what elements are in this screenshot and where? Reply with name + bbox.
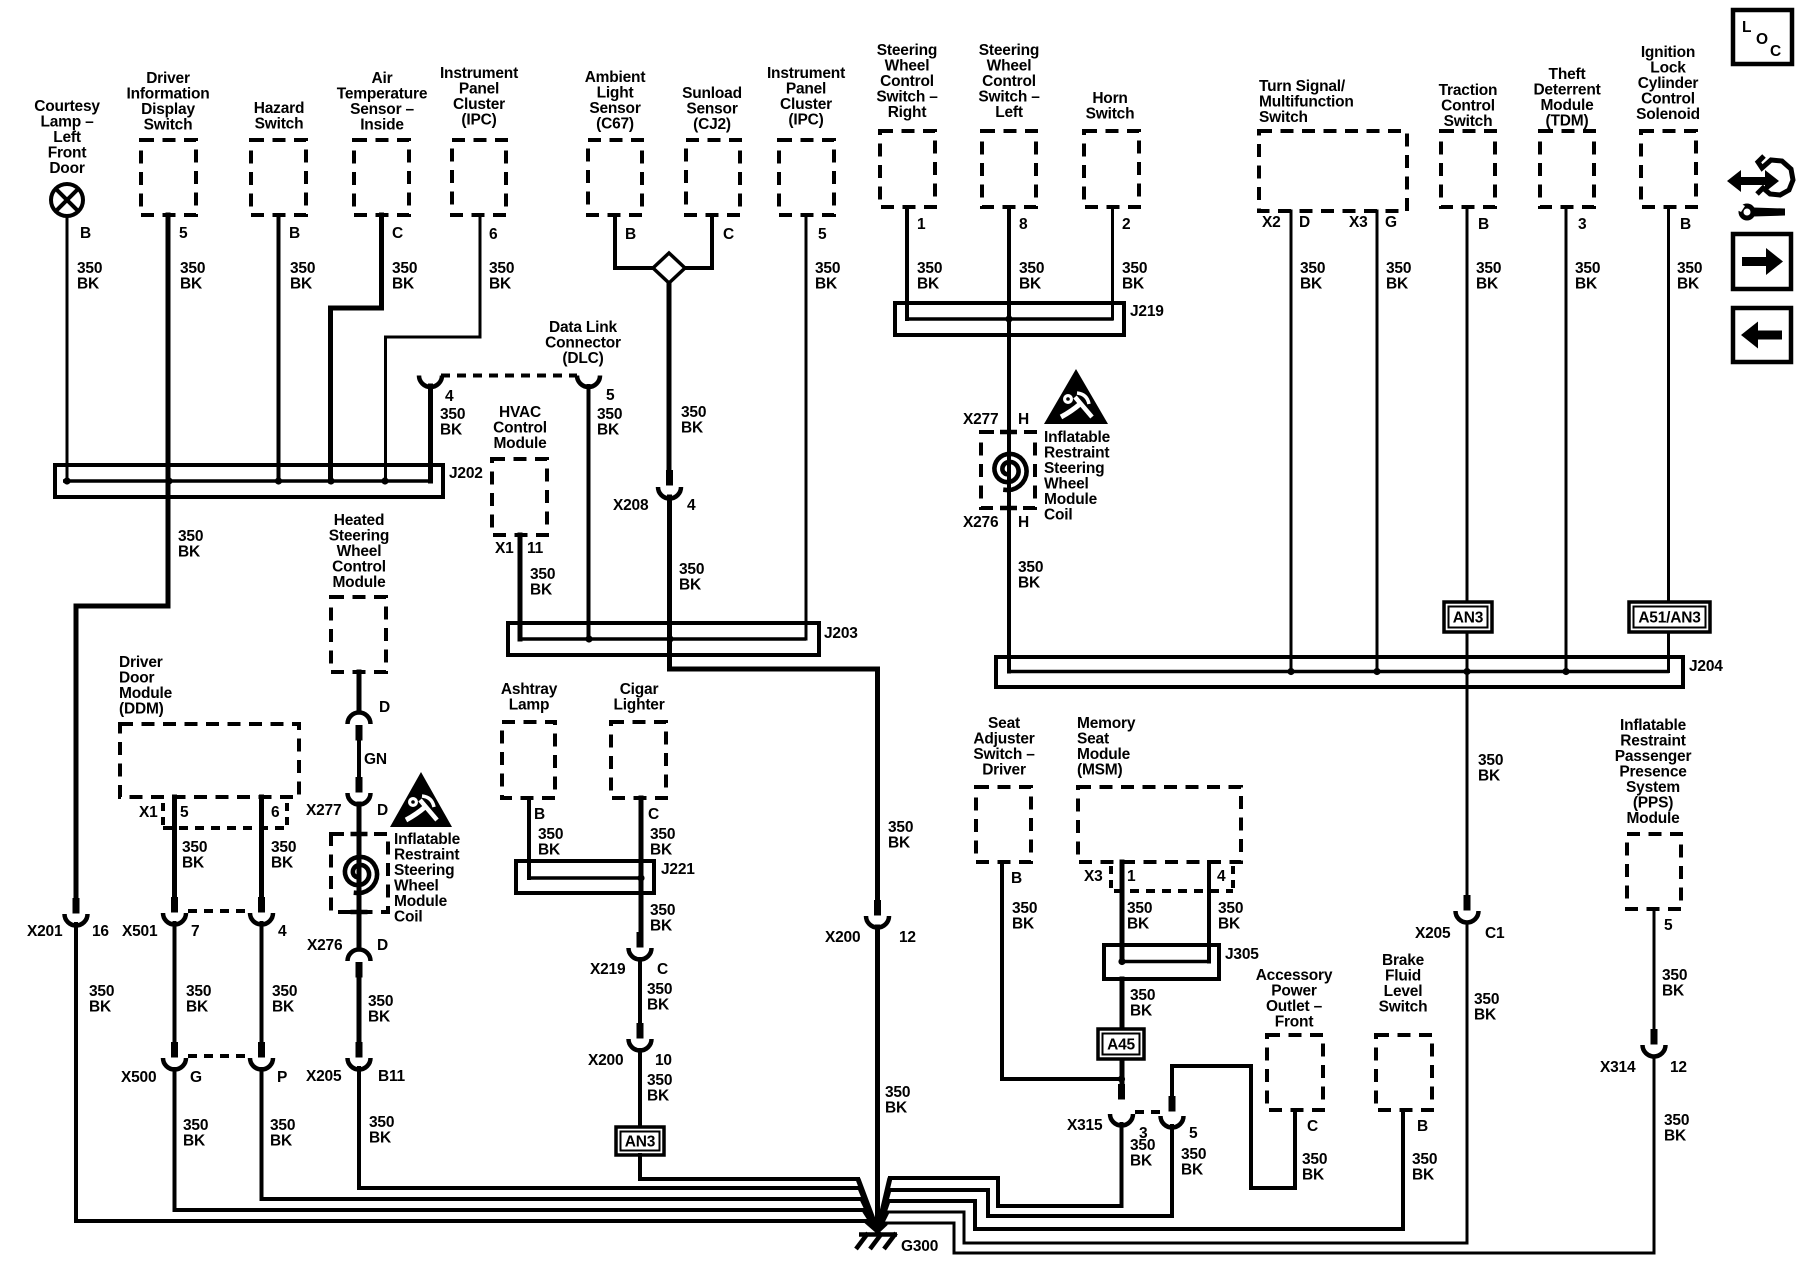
svg-text:4: 4 <box>445 388 454 405</box>
connector stub X315 5 <box>1169 1096 1176 1112</box>
connector cup X277 D <box>348 793 371 805</box>
wire traction control switch B through AN3 and J204 to X205 <box>1466 207 1469 896</box>
connector stub X500 G <box>171 1042 178 1058</box>
svg-text:X277: X277 <box>963 411 998 428</box>
svg-text:B: B <box>1680 216 1691 233</box>
svg-text:350BK: 350BK <box>1662 967 1687 1000</box>
svg-text:350BK: 350BK <box>885 1084 910 1117</box>
ground bus J221 <box>516 861 654 893</box>
steering wheel control switch right box <box>880 131 935 207</box>
svg-text:GN: GN <box>364 751 387 768</box>
instrument panel cluster (IPC) box left <box>452 140 506 215</box>
svg-text:6: 6 <box>489 226 498 243</box>
svg-text:X208: X208 <box>613 497 649 514</box>
wire ashtray lamp B to J221 <box>527 798 531 878</box>
connector cup X500 G <box>163 1058 186 1070</box>
wire ignition lock cylinder control solenoid B through A51/AN3 to J204 <box>1667 207 1670 672</box>
wire turn signal switch X2-D to J204 <box>1290 211 1293 672</box>
svg-text:X315: X315 <box>1067 1117 1103 1134</box>
connector dome X276 D <box>348 950 371 962</box>
wire X315 5 to ground G300 <box>889 1126 1172 1216</box>
wire heated steering wheel module to connector D <box>357 672 362 712</box>
courtesy lamp symbol - left front door <box>51 184 83 216</box>
svg-text:X200: X200 <box>588 1052 623 1069</box>
svg-text:X3: X3 <box>1084 868 1103 885</box>
wire X315 3 to ground G300 <box>890 1124 1122 1206</box>
dash tick X1 right <box>285 803 289 826</box>
svg-text:350BK: 350BK <box>530 566 555 599</box>
svg-text:350BK: 350BK <box>1478 752 1503 785</box>
ground bus J219 <box>895 303 1124 335</box>
wire brake fluid level switch B to ground G300 <box>888 1110 1403 1229</box>
wire steering wheel control switch right 1 to J219 <box>905 207 909 319</box>
connector stub X277 D <box>356 777 363 793</box>
connector stub X200 12 <box>874 900 881 916</box>
wire X219 C to X200 10 <box>638 959 642 1024</box>
svg-text:IgnitionLockCylinderControlSol: IgnitionLockCylinderControlSolenoid <box>1636 44 1700 123</box>
connector stub X201 <box>73 898 80 914</box>
svg-text:HeatedSteeringWheelControlModu: HeatedSteeringWheelControlModule <box>329 512 389 591</box>
connector stub X205 B11 <box>356 1042 363 1058</box>
svg-text:350BK: 350BK <box>1130 1137 1155 1170</box>
clockspring coil symbol left <box>345 857 377 893</box>
ground bus J202 <box>55 465 443 497</box>
svg-text:C: C <box>648 806 659 823</box>
connector cup X200 12 <box>866 916 889 928</box>
connector cup X315 3 <box>1110 1114 1133 1126</box>
svg-text:350BK: 350BK <box>1664 1112 1689 1145</box>
svg-text:HVACControlModule: HVACControlModule <box>493 404 547 452</box>
wire X200 10 to AN3 <box>638 1050 642 1127</box>
connector cup DLC pin 5 <box>577 376 600 388</box>
wire DLC 5 to J203 <box>587 386 591 639</box>
SIR warning triangle right <box>1044 369 1108 424</box>
svg-text:J202: J202 <box>449 465 483 482</box>
svg-text:G300: G300 <box>901 1238 938 1255</box>
tick X276 H at coil box bottom <box>1000 506 1017 511</box>
dashed edge X1 DDM <box>163 826 287 830</box>
svg-text:350BK: 350BK <box>917 260 942 293</box>
svg-text:10: 10 <box>655 1052 672 1069</box>
svg-text:1: 1 <box>917 216 926 233</box>
svg-text:L: L <box>1742 19 1751 36</box>
svg-text:350BK: 350BK <box>1575 260 1600 293</box>
wire instrument panel cluster 6 to J202 <box>386 215 481 481</box>
dash tick X3 right <box>1231 866 1235 889</box>
svg-text:X314: X314 <box>1600 1059 1636 1076</box>
connector stub X500 P <box>258 1042 265 1058</box>
accessory power outlet box <box>1267 1035 1323 1110</box>
fuse label box A45 <box>1098 1029 1144 1059</box>
wire X501 7 to X500 G <box>173 923 177 1042</box>
svg-text:350BK: 350BK <box>392 260 417 293</box>
splice diamond for ambient light and sunload sensors <box>653 253 685 283</box>
svg-text:350BK: 350BK <box>650 826 675 859</box>
wire instrument panel cluster 5 to J203 <box>805 215 808 639</box>
theft deterrent module box <box>1540 131 1594 207</box>
seat adjuster switch box <box>976 787 1031 862</box>
wire theft deterrent module 3 to J204 <box>1565 207 1568 672</box>
svg-text:X1: X1 <box>139 804 158 821</box>
connector cup X208 <box>658 487 681 499</box>
svg-text:A45: A45 <box>1107 1037 1135 1054</box>
instrument panel cluster (IPC) box right <box>779 140 834 215</box>
svg-text:350BK: 350BK <box>815 260 840 293</box>
svg-text:11: 11 <box>527 540 544 557</box>
connector stub X314 <box>1651 1029 1658 1045</box>
ignition lock cylinder control solenoid box <box>1641 131 1696 207</box>
svg-text:B: B <box>1478 216 1489 233</box>
svg-text:C: C <box>1770 43 1781 60</box>
svg-text:BrakeFluidLevelSwitch: BrakeFluidLevelSwitch <box>1379 952 1428 1016</box>
inflatable restraint steering wheel module coil box right <box>981 432 1035 508</box>
connector cup X200 10 <box>629 1039 652 1051</box>
legend icon double arrow with component outline and wrench <box>1727 156 1793 221</box>
svg-text:X2: X2 <box>1262 214 1281 231</box>
svg-text:AN3: AN3 <box>625 1134 656 1151</box>
svg-text:350BK: 350BK <box>180 260 205 293</box>
wire horn switch 2 to J219 <box>1111 207 1114 319</box>
svg-text:B: B <box>289 225 300 242</box>
svg-text:X501: X501 <box>122 923 158 940</box>
svg-text:X276: X276 <box>307 937 343 954</box>
connector stub below dome D <box>356 725 363 741</box>
ground symbol G300 <box>856 1233 897 1249</box>
traction control switch box <box>1441 131 1495 207</box>
ground bus J204 <box>996 657 1683 687</box>
svg-text:350BK: 350BK <box>440 406 465 439</box>
sunload sensor box <box>686 140 740 215</box>
svg-text:CigarLighter: CigarLighter <box>613 681 664 714</box>
dash tick X1 left <box>161 803 165 826</box>
junction seat adjuster wire with A45 wire <box>1118 1075 1125 1082</box>
dashed edge X3 MSM <box>1114 889 1233 893</box>
svg-text:350BK: 350BK <box>538 826 563 859</box>
connector stub X208 <box>666 470 673 486</box>
dash tick X3 left <box>1109 866 1113 889</box>
connector cup X201 16 <box>65 914 88 926</box>
svg-text:3: 3 <box>1578 216 1587 233</box>
svg-text:J219: J219 <box>1130 303 1164 320</box>
tick X277 H at coil box top <box>1000 430 1017 435</box>
svg-text:8: 8 <box>1019 216 1028 233</box>
svg-text:350BK: 350BK <box>597 406 622 439</box>
svg-text:1: 1 <box>1127 868 1136 885</box>
svg-text:350BK: 350BK <box>681 404 706 437</box>
heated steering wheel control module box <box>331 597 386 672</box>
svg-text:B: B <box>534 806 545 823</box>
wire X501 4 to X500 P <box>260 923 264 1042</box>
svg-text:350BK: 350BK <box>369 1114 394 1147</box>
wire turn signal switch X3-G to J204 <box>1376 211 1379 672</box>
wire accessory power outlet C to X315 5 <box>1172 1066 1295 1188</box>
connector stub X200 10 <box>637 1023 644 1039</box>
svg-text:O: O <box>1756 31 1768 48</box>
connector cup X314 12 <box>1643 1045 1666 1057</box>
svg-text:350BK: 350BK <box>368 993 393 1026</box>
svg-text:350BK: 350BK <box>1218 900 1243 933</box>
cigar lighter box <box>611 722 666 798</box>
svg-text:350BK: 350BK <box>77 260 102 293</box>
tick at left coil box top <box>351 832 368 837</box>
svg-text:X3: X3 <box>1349 214 1368 231</box>
svg-text:C: C <box>1307 1118 1318 1135</box>
wire DDM X1-6 to X501 <box>259 797 264 897</box>
svg-text:350BK: 350BK <box>186 983 211 1016</box>
wire GN between connectors <box>357 740 361 777</box>
connector stub X501 4 <box>258 897 265 913</box>
dashed link X500 <box>188 1054 248 1058</box>
svg-text:350BK: 350BK <box>1019 260 1044 293</box>
wire cigar lighter C through J221 to X219 <box>639 798 644 933</box>
svg-text:350BK: 350BK <box>1127 900 1152 933</box>
svg-text:12: 12 <box>899 929 916 946</box>
svg-text:5: 5 <box>180 804 189 821</box>
svg-text:C: C <box>723 226 734 243</box>
connector dome D heated steering wheel module <box>348 713 371 725</box>
wire X201 16 to ground G300 <box>76 924 866 1221</box>
svg-text:C: C <box>657 961 668 978</box>
hazard switch box <box>251 140 306 215</box>
wire DLC 4 to J202 <box>428 386 433 481</box>
wire X205 C1 to ground G300 <box>887 922 1467 1243</box>
wire X500 P to ground G300 <box>262 1069 863 1199</box>
wire steering wheel control switch left 8 through J219 and SIR coil to J204 <box>1007 207 1011 672</box>
svg-text:4: 4 <box>1217 868 1226 885</box>
svg-text:X500: X500 <box>121 1069 156 1086</box>
legend box L O C <box>1733 10 1792 64</box>
svg-text:350BK: 350BK <box>1474 991 1499 1024</box>
svg-text:5: 5 <box>1664 917 1673 934</box>
svg-text:P: P <box>277 1069 287 1086</box>
svg-text:C1: C1 <box>1485 925 1505 942</box>
svg-text:5: 5 <box>818 226 827 243</box>
air temperature sensor box <box>354 140 409 215</box>
svg-text:A51/AN3: A51/AN3 <box>1638 610 1701 627</box>
DLC dashed edge <box>441 374 577 378</box>
turn signal/multifunction switch box <box>1259 131 1407 211</box>
svg-text:350BK: 350BK <box>1386 260 1411 293</box>
svg-text:X205: X205 <box>1415 925 1451 942</box>
PPS module box <box>1627 834 1681 909</box>
wire X314 12 to ground G300 <box>886 1056 1654 1253</box>
svg-text:B11: B11 <box>378 1068 406 1085</box>
svg-text:7: 7 <box>191 923 199 940</box>
fuse label box AN3 on traction control wire <box>1444 602 1492 632</box>
memory seat module box <box>1078 787 1241 862</box>
fuse label box A51/AN3 on ignition solenoid wire <box>1629 602 1710 632</box>
horn switch box <box>1084 131 1139 207</box>
svg-text:X205: X205 <box>306 1068 342 1085</box>
svg-text:AshtrayLamp: AshtrayLamp <box>501 681 558 714</box>
ambient light sensor box <box>588 140 642 215</box>
driver door module box <box>120 724 299 797</box>
svg-text:X219: X219 <box>590 961 626 978</box>
wire MSM X3-4 to J305 <box>1207 862 1211 962</box>
svg-text:350BK: 350BK <box>1300 260 1325 293</box>
driver information display switch box <box>141 140 196 215</box>
svg-text:350BK: 350BK <box>182 839 207 872</box>
legend box right arrow <box>1733 234 1791 289</box>
wire PPS 5 to X314 <box>1653 909 1656 1029</box>
svg-text:2: 2 <box>1122 216 1130 233</box>
steering wheel control switch left box <box>982 131 1036 207</box>
svg-text:TractionControlSwitch: TractionControlSwitch <box>1439 82 1498 130</box>
wire AN3 to ground G300 <box>640 1155 858 1179</box>
wire ambient light sensor B to splice diamond <box>615 215 655 268</box>
svg-text:X1: X1 <box>495 540 514 557</box>
svg-text:350BK: 350BK <box>650 902 675 935</box>
wire MSM X3-1 to J305 <box>1120 862 1125 962</box>
ashtray lamp box <box>502 722 555 798</box>
connector cup X219 C <box>629 948 652 960</box>
svg-text:C: C <box>392 225 403 242</box>
svg-text:5: 5 <box>179 225 188 242</box>
svg-text:12: 12 <box>1670 1059 1687 1076</box>
wire X277 D through coil box left <box>357 804 362 949</box>
ground fan converging wires at G300 <box>860 1188 878 1231</box>
SIR warning triangle left <box>390 772 452 827</box>
dashed link X315 <box>1135 1110 1160 1114</box>
connector cup X500 P <box>250 1058 273 1070</box>
svg-text:J203: J203 <box>824 625 858 642</box>
connector stub X205 C1 <box>1464 895 1471 911</box>
svg-text:B: B <box>80 225 91 242</box>
svg-text:350BK: 350BK <box>271 839 296 872</box>
brake fluid level switch box <box>1376 1035 1432 1110</box>
ground bus J305 <box>1104 945 1219 979</box>
svg-text:J221: J221 <box>661 861 695 878</box>
wire hazard switch B to J202 <box>277 215 281 481</box>
svg-text:AN3: AN3 <box>1453 610 1484 627</box>
wire driver information display switch 5 through J202 to X201 <box>76 215 168 898</box>
wire courtesy lamp B to J202 <box>66 216 69 481</box>
svg-text:350BK: 350BK <box>1476 260 1501 293</box>
svg-text:350BK: 350BK <box>1412 1151 1437 1184</box>
connector cup X501 7 <box>163 913 186 925</box>
connector stub below X276 D <box>356 962 363 978</box>
svg-text:350BK: 350BK <box>1677 260 1702 293</box>
svg-text:B: B <box>1011 870 1022 887</box>
svg-text:X200: X200 <box>825 929 860 946</box>
inflatable restraint steering wheel module coil box left <box>331 834 388 912</box>
fuse label box AN3 on cigar lighter wire <box>616 1127 664 1155</box>
svg-text:350BK: 350BK <box>270 1117 295 1150</box>
svg-text:350BK: 350BK <box>178 528 203 561</box>
wire seat adjuster switch B to A45 wire <box>1002 862 1122 1079</box>
wire sunload sensor C to splice diamond <box>683 215 712 268</box>
tick at left coil box bottom <box>351 910 368 915</box>
svg-text:350BK: 350BK <box>89 983 114 1016</box>
svg-text:B: B <box>1417 1118 1428 1135</box>
connector cup DLC pin 4 <box>419 376 442 388</box>
svg-text:350BK: 350BK <box>647 1072 672 1105</box>
svg-text:H: H <box>1018 514 1029 531</box>
wire X205 B11 to ground G300 <box>359 1068 860 1188</box>
svg-text:G: G <box>1385 214 1397 231</box>
svg-text:D: D <box>377 937 388 954</box>
svg-text:350BK: 350BK <box>290 260 315 293</box>
dashed link X501 <box>188 909 248 913</box>
connector stub X501 7 <box>171 897 178 913</box>
svg-text:HornSwitch: HornSwitch <box>1086 90 1135 123</box>
clockspring coil symbol right <box>994 454 1026 490</box>
svg-text:D: D <box>377 802 388 819</box>
svg-text:J204: J204 <box>1689 658 1723 675</box>
wire X208 through J203 to X200 <box>670 497 878 900</box>
svg-text:350BK: 350BK <box>1012 900 1037 933</box>
connector cup X205 B11 <box>348 1058 371 1070</box>
svg-text:16: 16 <box>92 923 109 940</box>
svg-text:350BK: 350BK <box>1302 1151 1327 1184</box>
svg-text:X201: X201 <box>27 923 63 940</box>
wire splice diamond to X208 <box>667 283 672 470</box>
svg-text:350BK: 350BK <box>1018 559 1043 592</box>
svg-text:350BK: 350BK <box>888 819 913 852</box>
connector stub X219 <box>637 932 644 948</box>
connector stub X315 3 <box>1118 1084 1125 1100</box>
connector cup X501 4 <box>250 913 273 925</box>
wire HVAC X1-11 to J203 <box>518 535 523 639</box>
wire X500 G to ground G300 <box>175 1069 865 1210</box>
svg-text:350BK: 350BK <box>489 260 514 293</box>
svg-text:6: 6 <box>271 804 280 821</box>
svg-text:G: G <box>190 1069 202 1086</box>
legend box left arrow <box>1733 308 1791 362</box>
svg-text:350BK: 350BK <box>1122 260 1147 293</box>
connector cup X315 5 <box>1161 1116 1184 1128</box>
svg-text:J305: J305 <box>1225 946 1259 963</box>
ground bus J203 <box>508 623 819 655</box>
svg-text:350BK: 350BK <box>1181 1146 1206 1179</box>
svg-text:350BK: 350BK <box>679 561 704 594</box>
svg-text:350BK: 350BK <box>183 1117 208 1150</box>
wire air temperature sensor C to J202 <box>331 215 382 481</box>
svg-text:350BK: 350BK <box>272 983 297 1016</box>
svg-text:4: 4 <box>687 497 696 514</box>
svg-text:350BK: 350BK <box>647 981 672 1014</box>
svg-text:350BK: 350BK <box>1130 987 1155 1020</box>
wire X276 D to X205 B11 <box>357 977 362 1042</box>
svg-text:H: H <box>1018 411 1029 428</box>
svg-text:X276: X276 <box>963 514 999 531</box>
svg-text:5: 5 <box>606 387 615 404</box>
svg-text:4: 4 <box>278 923 287 940</box>
svg-text:HazardSwitch: HazardSwitch <box>254 100 304 133</box>
wire J305 through A45 to X315 <box>1120 979 1125 1088</box>
svg-text:5: 5 <box>1189 1125 1198 1142</box>
svg-text:X277: X277 <box>306 802 341 819</box>
connector cup X205 C1 <box>1456 911 1479 923</box>
svg-text:D: D <box>1299 214 1310 231</box>
wire X200 12 to ground G300 <box>875 927 880 1231</box>
HVAC control module box <box>492 459 547 535</box>
svg-text:D: D <box>379 699 390 716</box>
wire DDM X1-5 to X501 <box>172 797 177 897</box>
svg-text:B: B <box>625 226 636 243</box>
